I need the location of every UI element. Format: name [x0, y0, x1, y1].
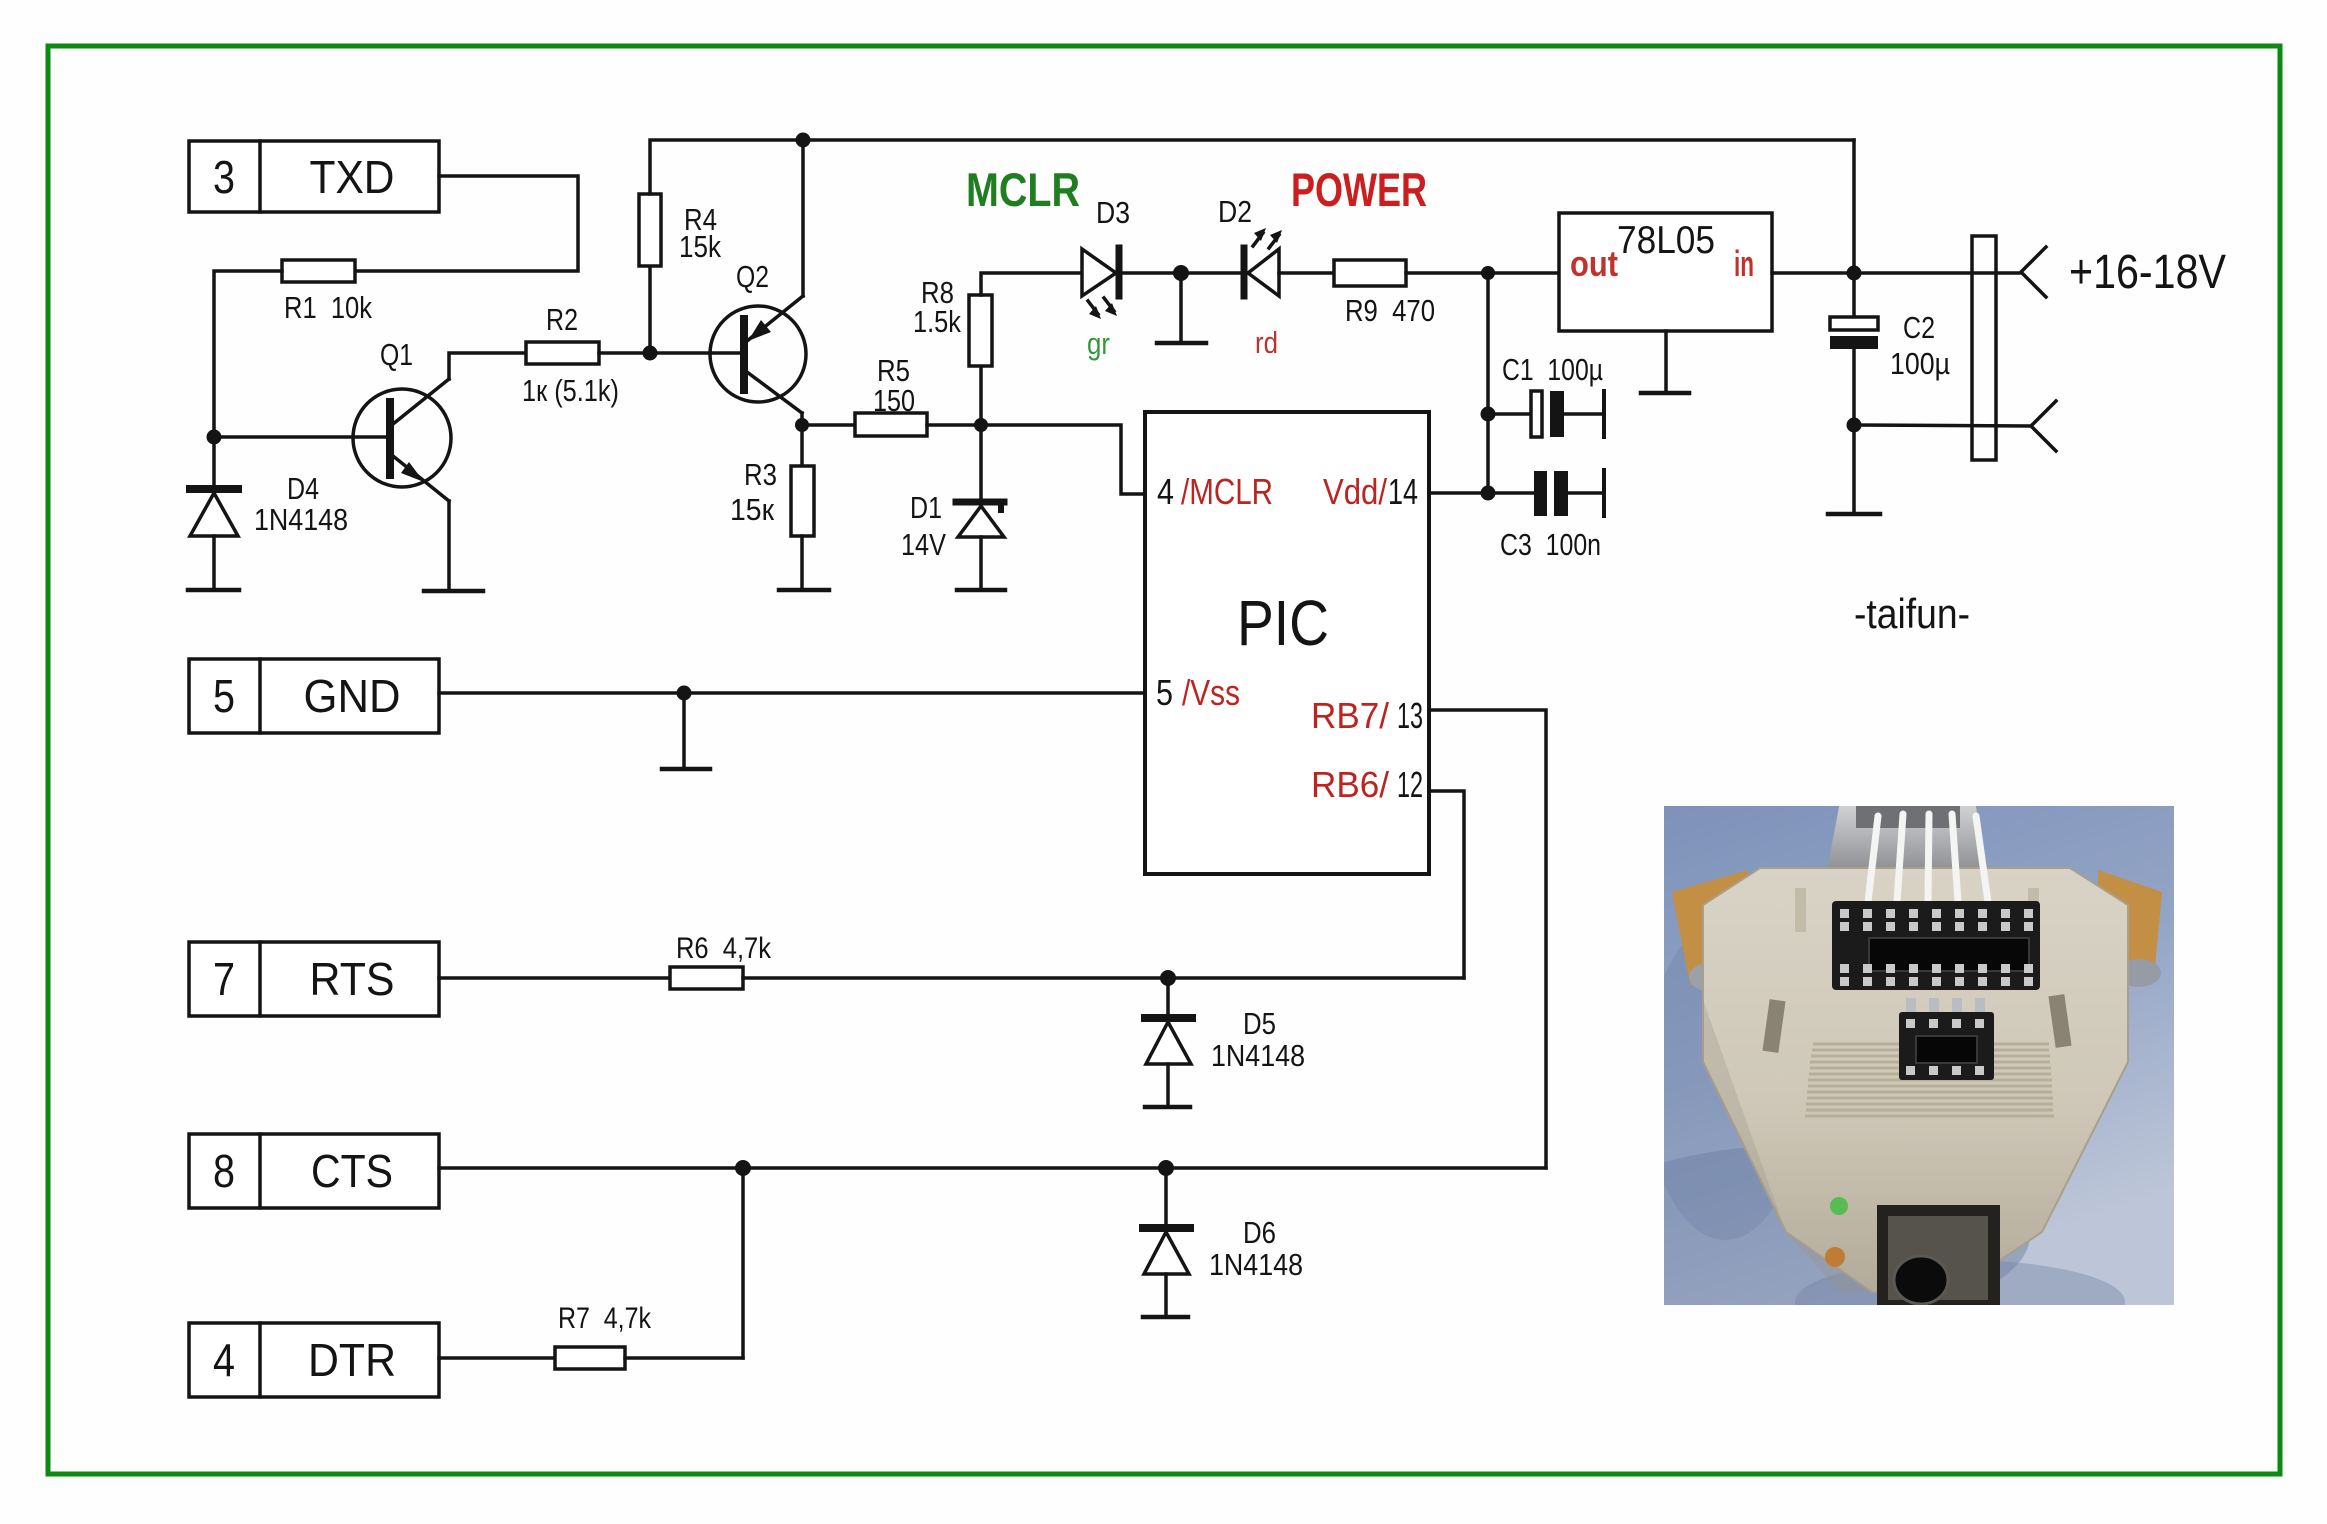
svg-text:gr: gr: [1087, 326, 1110, 361]
svg-text:out: out: [1570, 243, 1618, 284]
svg-text:C2: C2: [1903, 310, 1935, 345]
svg-text:1N4148: 1N4148: [254, 502, 348, 537]
svg-text:-taifun-: -taifun-: [1854, 590, 1970, 637]
svg-text:D6: D6: [1243, 1215, 1276, 1250]
svg-text:PIC: PIC: [1237, 587, 1329, 659]
svg-text:Q1: Q1: [380, 337, 413, 372]
svg-text:rd: rd: [1255, 325, 1278, 360]
svg-text:100µ: 100µ: [1890, 346, 1950, 381]
svg-text:150: 150: [873, 383, 915, 418]
svg-text:12: 12: [1397, 764, 1423, 805]
svg-text:CTS: CTS: [311, 1145, 393, 1197]
svg-text:3: 3: [213, 151, 235, 203]
svg-text:D4: D4: [287, 471, 319, 506]
svg-text:D3: D3: [1096, 195, 1130, 230]
svg-text:1N4148: 1N4148: [1211, 1038, 1305, 1073]
svg-text:R6 4,7k: R6 4,7k: [676, 932, 772, 965]
svg-text:+16-18V: +16-18V: [2069, 246, 2226, 299]
svg-text:RTS: RTS: [310, 953, 395, 1005]
svg-text:5: 5: [213, 670, 235, 722]
svg-text:5: 5: [1156, 672, 1173, 713]
svg-text:/MCLR: /MCLR: [1181, 471, 1273, 512]
svg-text:GND: GND: [304, 670, 401, 722]
svg-text:R9 470: R9 470: [1345, 293, 1435, 328]
svg-text:78L05: 78L05: [1617, 219, 1715, 262]
svg-text:15k: 15k: [679, 229, 721, 264]
svg-text:Q2: Q2: [736, 259, 769, 294]
svg-text:D2: D2: [1218, 194, 1252, 229]
svg-text:D1: D1: [910, 490, 942, 525]
svg-text:R1 10k: R1 10k: [284, 290, 372, 325]
svg-text:DTR: DTR: [308, 1334, 396, 1386]
svg-text:in: in: [1734, 243, 1754, 284]
svg-text:MCLR: MCLR: [966, 163, 1080, 216]
svg-text:1.5k: 1.5k: [913, 304, 961, 339]
svg-text:4: 4: [1157, 471, 1174, 512]
svg-text:Vdd/: Vdd/: [1323, 471, 1387, 512]
svg-text:1к (5.1k): 1к (5.1k): [522, 373, 619, 408]
svg-text:4: 4: [213, 1334, 235, 1386]
svg-text:14V: 14V: [901, 527, 946, 562]
svg-text:15к: 15к: [730, 492, 774, 527]
svg-text:RB6/: RB6/: [1311, 764, 1389, 805]
svg-text:TXD: TXD: [310, 151, 395, 203]
svg-text:7: 7: [213, 953, 235, 1005]
svg-text:R7 4,7k: R7 4,7k: [558, 1302, 652, 1335]
svg-text:POWER: POWER: [1291, 163, 1427, 216]
svg-text:R2: R2: [546, 302, 578, 337]
svg-text:R3: R3: [744, 457, 777, 492]
svg-text:D5: D5: [1243, 1006, 1276, 1041]
svg-text:14: 14: [1388, 471, 1418, 512]
svg-text:13: 13: [1397, 695, 1423, 736]
svg-text:8: 8: [213, 1145, 235, 1197]
svg-text:RB7/: RB7/: [1311, 695, 1389, 736]
svg-text:1N4148: 1N4148: [1209, 1247, 1303, 1282]
svg-text:/Vss: /Vss: [1182, 672, 1240, 713]
svg-text:C3 100n: C3 100n: [1500, 527, 1601, 562]
svg-text:C1 100µ: C1 100µ: [1502, 352, 1603, 387]
